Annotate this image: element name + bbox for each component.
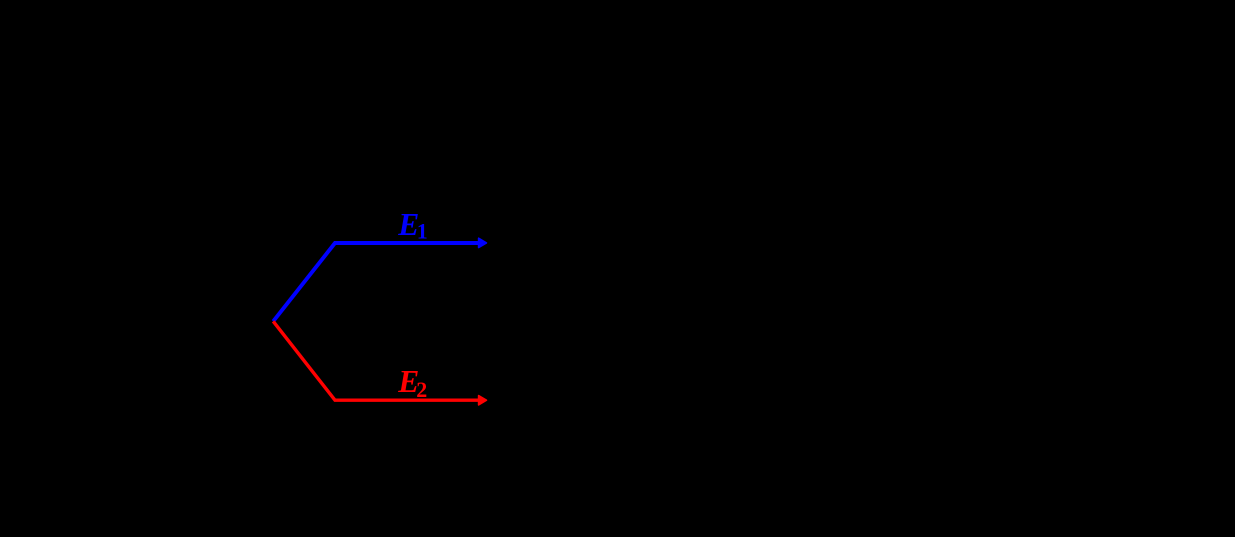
wire E2 branch (red polyline): [273, 321, 479, 400]
node E1 label: [397, 207, 428, 244]
node E2 label: [397, 364, 427, 402]
svg-text:2: 2: [416, 377, 427, 402]
wire E1 branch (blue polyline): [273, 243, 479, 321]
arrowhead E1: [479, 238, 487, 247]
svg-text:1: 1: [417, 219, 428, 244]
arrowhead E2: [479, 396, 487, 405]
